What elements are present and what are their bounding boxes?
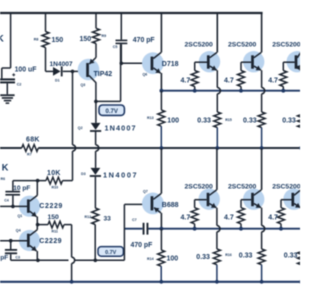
svg-text:0.33: 0.33: [239, 252, 253, 259]
svg-text:Q3: Q3: [81, 83, 86, 87]
svg-text:D1: D1: [55, 79, 60, 83]
svg-text:2SC5200: 2SC5200: [228, 183, 257, 190]
svg-text:4.7: 4.7: [268, 78, 278, 85]
svg-text:4.7: 4.7: [181, 78, 191, 85]
svg-text:0.33: 0.33: [196, 254, 210, 261]
svg-text:0.33: 0.33: [284, 252, 298, 259]
svg-text:R14: R14: [147, 257, 154, 261]
svg-text:0.7V: 0.7V: [106, 109, 118, 115]
svg-text:2SC5200: 2SC5200: [272, 42, 300, 49]
svg-text:100 uF: 100 uF: [15, 67, 37, 74]
svg-text:1N4007: 1N4007: [50, 61, 73, 68]
svg-text:Q4: Q4: [16, 229, 21, 233]
svg-text:4.7: 4.7: [224, 215, 234, 222]
svg-text:C7: C7: [132, 218, 137, 222]
svg-text:R15: R15: [225, 118, 232, 122]
svg-text:100: 100: [167, 117, 179, 124]
svg-text:R16: R16: [225, 253, 232, 257]
svg-text:C2: C2: [17, 83, 22, 87]
svg-text:D718: D718: [162, 61, 179, 68]
svg-text:1N4007: 1N4007: [105, 124, 137, 133]
svg-text:Q1: Q1: [18, 214, 23, 218]
svg-text:2SC5200: 2SC5200: [272, 183, 300, 190]
svg-text:K: K: [2, 162, 9, 172]
svg-text:R7: R7: [27, 153, 32, 157]
svg-text:R9: R9: [102, 34, 107, 38]
svg-text:C4: C4: [4, 199, 9, 203]
svg-text:470 pF: 470 pF: [133, 37, 155, 44]
svg-text:pF: pF: [0, 255, 8, 262]
svg-text:D3: D3: [81, 172, 86, 176]
svg-text:TIP42: TIP42: [94, 71, 113, 78]
svg-text:4.7: 4.7: [181, 215, 191, 222]
svg-text:C5: C5: [113, 45, 118, 49]
svg-text:4.7: 4.7: [224, 78, 234, 85]
svg-text:4.7: 4.7: [268, 215, 278, 222]
svg-text:R10: R10: [52, 186, 59, 190]
svg-text:K: K: [0, 34, 4, 45]
svg-text:Q2: Q2: [78, 126, 83, 130]
svg-text:R6: R6: [1, 177, 6, 181]
svg-text:470 pF: 470 pF: [131, 242, 153, 249]
svg-text:R8: R8: [34, 38, 39, 42]
svg-text:R12: R12: [85, 215, 92, 219]
svg-text:B688: B688: [162, 202, 179, 209]
svg-text:150: 150: [80, 36, 92, 43]
svg-text:R11: R11: [52, 230, 58, 234]
svg-text:0.7V: 0.7V: [105, 250, 116, 256]
svg-text:2SC5200: 2SC5200: [185, 42, 214, 49]
svg-text:2SC5200: 2SC5200: [185, 183, 214, 190]
svg-text:150: 150: [52, 37, 64, 44]
svg-text:1N4007: 1N4007: [103, 171, 138, 180]
svg-text:68K: 68K: [26, 137, 40, 144]
svg-text:10 pF: 10 pF: [13, 185, 30, 192]
svg-text:Q7: Q7: [143, 190, 148, 194]
svg-text:Q6: Q6: [143, 73, 148, 77]
svg-text:0.33: 0.33: [197, 117, 211, 124]
svg-text:0.33: 0.33: [243, 117, 257, 124]
svg-text:33: 33: [104, 215, 112, 222]
svg-text:10K: 10K: [47, 170, 61, 177]
svg-text:2SC5200: 2SC5200: [228, 42, 257, 49]
svg-text:C2229: C2229: [39, 238, 62, 245]
svg-text:0.33: 0.33: [282, 117, 296, 124]
svg-text:C2229: C2229: [39, 203, 63, 210]
svg-text:C3: C3: [15, 256, 20, 260]
svg-text:150: 150: [48, 214, 60, 221]
svg-text:100: 100: [167, 255, 179, 262]
svg-text:R13: R13: [147, 116, 154, 120]
